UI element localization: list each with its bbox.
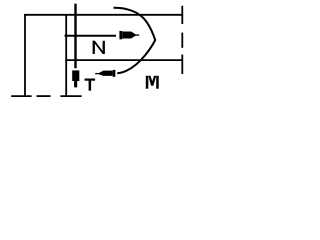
- bottom dashed line: [11, 95, 31, 97]
- beam top edge: [24, 14, 183, 16]
- N arrowhead: [119, 31, 122, 39]
- label N: [93, 41, 105, 54]
- label T: [85, 79, 96, 91]
- shear line T shaft: [74, 4, 76, 69]
- moment arc M: [114, 8, 156, 74]
- label M: [146, 76, 159, 89]
- cut face vertical: [65, 14, 67, 97]
- beam lower edge right of cut: [65, 59, 183, 61]
- column left edge: [24, 14, 26, 97]
- N arrow shaft: [65, 35, 117, 37]
- M arrowhead: [113, 70, 116, 77]
- T arrowhead: [72, 70, 79, 81]
- right dashed vertical: [181, 6, 183, 24]
